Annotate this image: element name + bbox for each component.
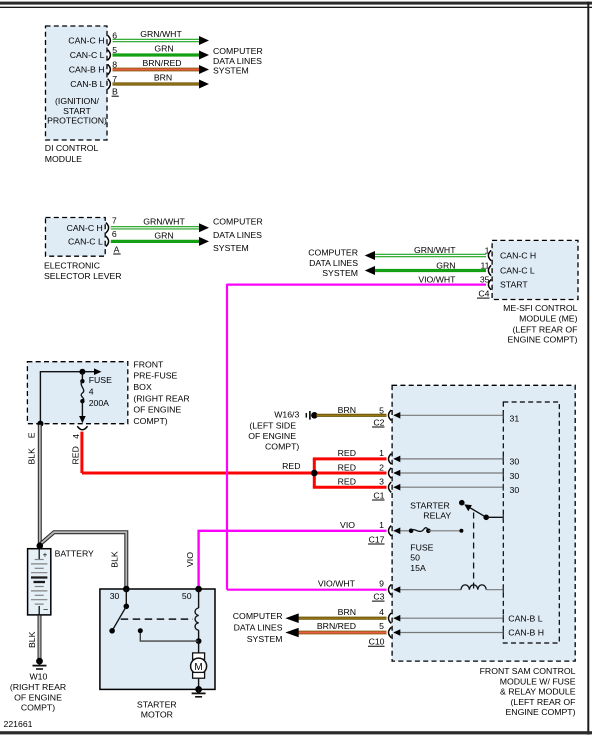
svg-text:W16/3: W16/3 [274,410,299,420]
SAM connector arc pin 4 [389,613,392,623]
svg-text:15A: 15A [410,563,426,573]
svg-text:CAN-C H: CAN-C H [67,223,103,233]
svg-text:STARTER: STARTER [410,500,450,510]
SAM connector arc pin 2 [389,468,392,478]
svg-text:B: B [112,87,118,97]
svg-text:OF ENGINE: OF ENGINE [248,431,296,441]
svg-text:BRN/RED: BRN/RED [317,621,356,631]
svg-text:COMPT): COMPT) [21,703,55,713]
starter switch blade [112,606,126,631]
svg-text:CAN-B H: CAN-B H [69,65,105,75]
svg-text:CAN-B H: CAN-B H [508,627,544,637]
svg-text:SYSTEM: SYSTEM [247,634,283,644]
svg-text:DATA LINES: DATA LINES [213,56,262,66]
svg-text:BLK: BLK [27,448,37,465]
svg-text:BRN/RED: BRN/RED [142,58,181,68]
wire VIO SAM pin 1/C17 to starter [199,531,387,588]
arrow selector wire 7 [199,223,209,232]
SAM internal line pin 4 to CAN-B L [394,617,503,619]
SAM connector arc pin 1/C17 [389,526,392,536]
svg-text:RED: RED [338,463,356,473]
SAM module box [392,385,575,661]
svg-text:9: 9 [379,578,384,588]
svg-text:4: 4 [89,387,94,397]
svg-text:C17: C17 [369,534,385,544]
pre-fuse internal bus wire [40,372,96,424]
starter relay contact line to module [486,516,503,518]
svg-text:CAN-C L: CAN-C L [70,50,105,60]
svg-text:−: − [43,605,48,615]
frame bottom thick line [0,731,592,734]
electronic selector lever box [46,218,106,257]
svg-text:BOX: BOX [133,382,152,392]
ground W10 symbol [39,661,41,665]
SAM internal line pin 3 to terminal 30 [394,486,503,488]
ME-SFI connector arc pin 1 [488,250,491,260]
junction node on bus [79,369,85,375]
svg-text:CAN-B L: CAN-B L [508,614,542,624]
svg-text:VIO: VIO [340,520,355,530]
starter switch contact [124,604,130,610]
svg-text:RED: RED [71,446,81,464]
ME-SFI control module box [492,240,578,299]
fuse 50 15A [409,529,414,534]
battery thick middle plates [31,576,47,578]
svg-text:BLK: BLK [110,551,120,568]
svg-text:(LEFT REAR OF: (LEFT REAR OF [510,697,575,707]
pre-fuse bus arrow right [94,368,102,375]
starter relay blade [468,506,487,517]
battery box [28,549,51,615]
svg-text:C4: C4 [478,289,489,299]
ME-SFI connector arc pin 35 [488,279,491,289]
svg-text:GRN: GRN [154,231,173,241]
svg-text:START: START [500,280,528,290]
wire RED pre-fuse vertical [80,432,83,473]
svg-text:FRONT SAM CONTROL: FRONT SAM CONTROL [480,666,576,676]
svg-text:30: 30 [510,471,520,481]
DI connector arc pin 5 [108,50,111,60]
wire RED stub pin 1 [313,457,387,460]
DI connector arc pin 7 [108,79,111,89]
svg-text:FRONT: FRONT [133,359,164,369]
arrow BRN/RED (left) [285,628,298,638]
relay coil [461,585,486,590]
svg-text:7: 7 [112,216,117,226]
wire VIO/WHT vertical run [226,284,228,590]
svg-text:5: 5 [112,45,117,55]
svg-text:FUSE: FUSE [410,542,433,552]
wire GRN DI pin 5 [113,53,200,56]
svg-text:BRN: BRN [338,405,356,415]
solenoid output node [196,638,202,644]
svg-text:FUSE: FUSE [89,375,112,385]
svg-text:221661: 221661 [4,719,33,729]
pre-fuse output connector arc [77,426,87,430]
wire GRN selector pin 6 [111,240,200,243]
svg-text:COMPUTER: COMPUTER [213,217,263,227]
wire RED bus vertical [313,459,316,487]
svg-text:CAN-C H: CAN-C H [500,251,536,261]
arrow DI wire 7 [199,80,209,89]
starter ground node [195,686,202,693]
svg-text:MODULE W/ FUSE: MODULE W/ FUSE [500,676,576,686]
wire BRN DI pin 7 [113,82,200,85]
SAM connector arc pin 3 [389,482,392,492]
DI connector arc pin 6 [108,35,111,45]
svg-text:4: 4 [71,434,81,439]
SAM inner fuse/relay box [503,402,559,643]
SAM internal line pin 1 to terminal 30 [394,458,503,460]
battery plates [31,560,47,605]
SAM internal line pin 9 with relay coil [394,589,461,591]
svg-text:CAN-C L: CAN-C L [68,237,103,247]
svg-text:GRN/WHT: GRN/WHT [143,217,185,227]
svg-text:BRN: BRN [338,607,356,617]
node terminal 50 [195,586,202,593]
svg-text:VIO: VIO [185,552,195,567]
svg-text:C10: C10 [369,637,385,647]
battery negative post [38,606,40,615]
svg-text:30: 30 [510,485,520,495]
DI control module box [46,26,108,140]
svg-text:(LEFT REAR OF: (LEFT REAR OF [512,324,577,334]
SAM connector arc pin 5/C10 [389,627,392,637]
svg-text:2: 2 [379,462,384,472]
frame right line [587,2,589,735]
svg-text:C3: C3 [373,592,384,602]
svg-text:(RIGHT REAR: (RIGHT REAR [10,682,66,692]
frame top thin line [0,7,592,8]
svg-text:1: 1 [379,520,384,530]
svg-text:35: 35 [480,274,490,284]
SAM internal line pin 1/C17 with fuse 50 [394,530,410,532]
svg-text:31: 31 [510,413,520,423]
svg-text:E: E [27,432,37,438]
svg-text:30: 30 [510,457,520,467]
svg-text:MODULE: MODULE [45,154,82,164]
fuse F4 200A [81,372,83,380]
pre-fuse output arrow down [79,416,86,423]
svg-text:ME-SFI CONTROL: ME-SFI CONTROL [503,303,577,313]
wire BLK battery to starter (diagonal+horizontal+vertical) [40,532,127,588]
svg-text:4: 4 [379,607,384,617]
DI connector arc pin 8 [108,64,111,74]
node terminal 30 [123,586,130,593]
svg-text:ENGINE COMPT): ENGINE COMPT) [508,335,578,345]
SAM internal line pin 5 to terminal 31 [394,414,503,416]
svg-text:STARTER: STARTER [137,699,177,709]
svg-text:GRN: GRN [154,44,173,54]
SAM connector arc pin 5/C2 [389,410,392,420]
arrow ME-SFI wire 11 (left) [365,266,375,275]
svg-text:SYSTEM: SYSTEM [322,268,358,278]
wire BRN/RED SAM pin 5 [299,631,387,635]
starter switch feed line [125,589,127,606]
svg-text:MOTOR: MOTOR [141,710,173,720]
svg-text:BLK: BLK [27,631,37,648]
starter relay fixed contact [459,500,465,506]
svg-text:BATTERY: BATTERY [55,548,94,558]
svg-text:CAN-B L: CAN-B L [70,79,104,89]
wire RED horizontal run to SAM [82,472,314,475]
svg-text:50: 50 [182,591,192,601]
svg-text:COMPT): COMPT) [133,416,167,426]
svg-text:COMPUTER: COMPUTER [308,248,358,258]
svg-text:CAN-C H: CAN-C H [68,36,104,46]
selector connector arc pin 7 [106,223,109,233]
SAM internal line pin 5 to CAN-B H [394,632,503,634]
wire BLK battery to ground [38,616,42,661]
svg-text:SELECTOR LEVER: SELECTOR LEVER [44,271,122,281]
node battery positive junction [37,543,44,550]
svg-text:C1: C1 [373,490,384,500]
svg-text:RED: RED [338,448,356,458]
svg-text:3: 3 [379,476,384,486]
wire GRN/WHT ME-SFI pin 1 [375,254,487,257]
svg-text:BRN: BRN [154,73,172,83]
svg-text:W10: W10 [29,672,47,682]
SAM connector arc pin 9/C3 [389,585,392,595]
motor M [198,641,200,653]
svg-text:DATA LINES: DATA LINES [234,623,283,633]
wire BLK pre-fuse to battery [38,425,42,546]
svg-text:OF ENGINE: OF ENGINE [14,692,62,702]
svg-text:COMPT): COMPT) [265,442,299,452]
svg-text:GRN/WHT: GRN/WHT [140,29,182,39]
solenoid coil on 50 line [198,589,200,608]
svg-text:(RIGHT REAR: (RIGHT REAR [133,393,189,403]
starter motor box [100,589,215,689]
svg-text:DI CONTROL: DI CONTROL [45,143,99,153]
svg-text:50: 50 [410,553,420,563]
selector connector arc pin 6 [106,236,109,246]
svg-text:+: + [43,550,48,559]
svg-text:VIO/WHT: VIO/WHT [318,578,356,588]
wire GRN/WHT selector pin 7 [111,226,200,229]
svg-text:RED: RED [282,461,300,471]
svg-text:START: START [63,106,91,116]
svg-text:ENGINE COMPT): ENGINE COMPT) [506,707,576,717]
battery positive post [38,549,40,559]
wire BRN/RED DI pin 8 [113,68,200,72]
SAM internal line pin 2 to terminal 30 [394,472,503,474]
front pre-fuse box [27,362,127,424]
svg-text:GRN: GRN [436,260,455,270]
solenoid contact arm L-line [140,632,198,642]
relay actuator dashed link [473,513,475,589]
svg-text:M: M [194,662,202,673]
svg-text:COMPUTER: COMPUTER [213,46,263,56]
arrow DI wire 5 [199,51,209,60]
svg-text:RELAY: RELAY [423,511,451,521]
svg-text:(IGNITION/: (IGNITION/ [55,96,100,106]
svg-text:COMPUTER: COMPUTER [233,611,283,621]
svg-text:OF ENGINE: OF ENGINE [133,405,181,415]
wire RED stub pin 3 [313,486,387,489]
splice W16/3 [305,413,307,418]
svg-text:RED: RED [338,477,356,487]
svg-text:PROTECTION): PROTECTION) [47,116,107,126]
svg-text:SYSTEM: SYSTEM [213,243,249,253]
svg-text:SYSTEM: SYSTEM [213,66,249,76]
wire BRN SAM pin 4 [299,617,387,620]
svg-text:DATA LINES: DATA LINES [213,230,262,240]
arrow DI wire 8 [199,65,209,74]
node E at pre-fuse box bottom [37,421,43,427]
arrow ME-SFI wire 1 (left) [365,251,375,260]
wire VIO/WHT ME-SFI pin 35 (horizontal) [227,284,486,286]
frame top thick line [0,2,592,5]
svg-text:GRN/WHT: GRN/WHT [414,245,456,255]
svg-text:ELECTRONIC: ELECTRONIC [44,260,100,270]
svg-text:A: A [114,244,120,254]
svg-text:11: 11 [480,260,489,270]
svg-text:6: 6 [112,229,117,239]
wire GRN/WHT DI pin 6 [113,39,200,42]
wire RED stub pin 2 [314,472,386,475]
starter ground symbol [198,689,200,692]
svg-text:MODULE (ME): MODULE (ME) [519,314,578,324]
svg-text:DATA LINES: DATA LINES [309,258,358,268]
svg-text:C2: C2 [373,417,384,427]
svg-text:200A: 200A [89,398,109,408]
wire VIO/WHT into SAM pin 9 [227,589,387,591]
ME-SFI connector arc pin 11 [488,265,491,275]
svg-text:1: 1 [379,448,384,458]
svg-text:PRE-FUSE: PRE-FUSE [133,371,177,381]
svg-text:(LEFT SIDE: (LEFT SIDE [249,421,296,431]
svg-text:VIO/WHT: VIO/WHT [418,274,456,284]
SAM connector arc pin 1 [389,454,392,464]
svg-text:CAN-C L: CAN-C L [500,266,535,276]
wire BRN W16/3 to SAM pin 5 [317,414,387,417]
wire GRN ME-SFI pin 11 [375,269,487,272]
svg-text:7: 7 [112,74,117,84]
arrow BRN (left) [285,613,298,623]
svg-text:& RELAY MODULE: & RELAY MODULE [500,687,576,697]
junction node red bus [311,470,318,477]
arrow selector wire 6 [199,237,209,246]
ground W10 node [36,658,43,665]
svg-text:30: 30 [110,591,120,601]
solenoid linkage dashed [121,618,193,620]
arrow DI wire 6 [199,36,209,45]
svg-text:5: 5 [379,621,384,631]
